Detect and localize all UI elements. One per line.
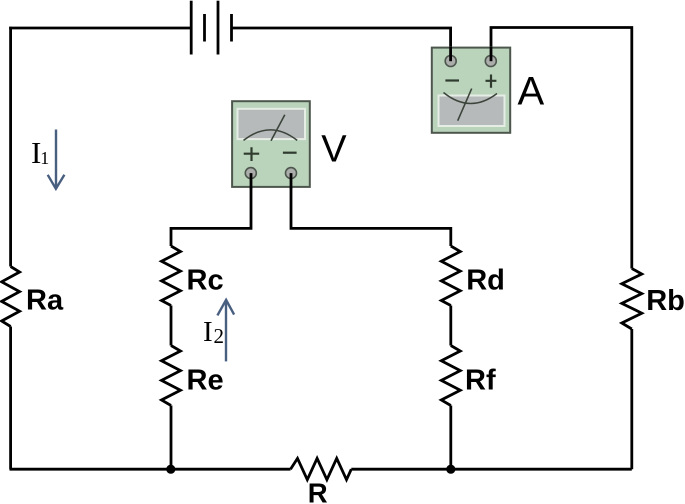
- svg-text:V: V: [321, 129, 347, 171]
- svg-text:A: A: [518, 70, 545, 114]
- svg-text:Rb: Rb: [646, 285, 685, 317]
- svg-text:Rc: Rc: [187, 264, 224, 296]
- svg-text:I: I: [203, 316, 213, 348]
- svg-text:Ra: Ra: [26, 285, 64, 317]
- svg-text:Rf: Rf: [465, 365, 496, 397]
- svg-text:R: R: [308, 477, 328, 504]
- svg-text:Rd: Rd: [466, 265, 505, 297]
- svg-text:2: 2: [214, 324, 225, 348]
- svg-text:1: 1: [40, 148, 49, 168]
- svg-text:Re: Re: [187, 365, 224, 397]
